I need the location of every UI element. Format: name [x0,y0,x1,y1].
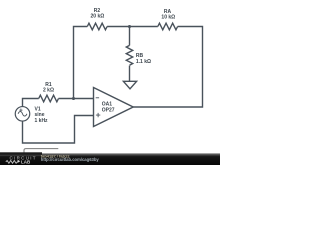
resistor R2 [87,23,107,30]
svg-text:1.1 kΩ: 1.1 kΩ [136,59,151,65]
wire V1 minus around to op-amp non-inverting input [23,116,94,144]
svg-text:OP27: OP27 [102,108,115,114]
wire RB to ground [129,66,131,82]
wire V1 plus to R1 [23,99,39,107]
CircuitLab logo [6,156,37,165]
resistor RA [158,23,178,30]
svg-text:http://circuitlab.com/cag63by: http://circuitlab.com/cag63by [41,157,100,162]
svg-text:LAB: LAB [21,160,31,165]
op-amp OA1 body [94,88,134,127]
node junction inverting net [72,97,75,100]
svg-text:2 kΩ: 2 kΩ [43,87,54,93]
wire from R2 left lead down to inverting node [74,27,88,99]
wire from R2 to RA along top net [107,26,158,28]
resistor R1 [39,95,59,102]
wire from RA right around to op-amp output [133,27,202,108]
op-amp inverting pin mark [96,97,99,99]
svg-text:OA1: OA1 [102,101,113,107]
wire top net to RB [129,27,131,46]
svg-text:1 kHz: 1 kHz [35,118,49,124]
svg-text:10 kΩ: 10 kΩ [161,14,175,20]
V1 sine glyph [18,112,27,116]
resistor RB [126,45,132,65]
op-amp non-inverting pin mark [96,113,100,117]
watermark tab outline [24,149,58,154]
svg-text:RB: RB [136,53,144,59]
wire R1 to op-amp inverting input [59,98,94,100]
voltage source V1 [15,107,30,122]
ground [123,81,136,89]
node junction top net [128,25,131,28]
V1 plus mark [19,109,22,112]
svg-text:20 kΩ: 20 kΩ [91,14,105,20]
